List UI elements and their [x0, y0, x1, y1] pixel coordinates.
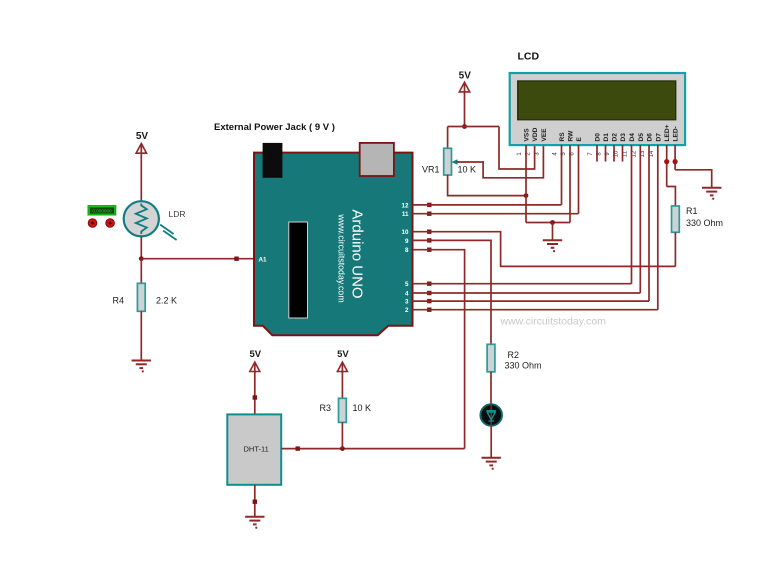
Arduino UNO board U1	[254, 153, 413, 336]
ground (LED D1)	[482, 458, 501, 470]
svg-text:LCD: LCD	[518, 51, 540, 63]
wire pin12 to LCD RS	[413, 204, 562, 206]
svg-text:2: 2	[405, 307, 409, 314]
wire branch to VR1 top	[447, 127, 449, 149]
wire LCD D4 down	[631, 145, 633, 284]
LCD module body	[510, 73, 685, 145]
wire 5V down to node	[464, 92, 466, 127]
ground (R4)	[132, 361, 151, 373]
svg-text:R1: R1	[686, 206, 698, 216]
wire DHT to ground	[254, 485, 256, 517]
LDR button up	[88, 219, 97, 228]
node junction LDR/R4/A1	[139, 256, 144, 261]
pin square DHT data	[296, 446, 300, 450]
node LED-	[673, 159, 678, 164]
power 5V P4 (R3)	[337, 349, 349, 373]
ground (DHT)	[245, 517, 264, 529]
svg-text:Arduino UNO: Arduino UNO	[349, 209, 366, 298]
ground (LED-)	[702, 188, 721, 200]
resistor R1	[672, 206, 680, 232]
wire branch to LCD VDD	[499, 127, 535, 170]
LDR light arrows	[160, 225, 176, 240]
svg-text:R2: R2	[508, 350, 520, 360]
wire LCD D7 down	[657, 145, 659, 310]
svg-text:11: 11	[623, 150, 629, 157]
node ground net	[550, 220, 555, 225]
wire pin11 to LCD E	[413, 213, 579, 215]
wire 5V to LDR	[140, 153, 142, 201]
wire VR1 bottom to VSS net	[448, 175, 526, 196]
wire LCD D6 down	[648, 145, 650, 301]
svg-text:RS: RS	[559, 132, 566, 142]
pin square D3	[427, 299, 431, 303]
wire 5V branch horizontal	[448, 126, 499, 128]
LDR button down	[106, 219, 115, 228]
svg-text:D6: D6	[647, 133, 654, 142]
wire R1 bottom	[674, 232, 676, 266]
svg-text:RW: RW	[568, 130, 575, 142]
wire LED to ground	[490, 426, 492, 458]
wire 5V to DHT	[254, 372, 256, 415]
wire DHT data	[281, 448, 464, 450]
power 5V P2 (LCD/VR1)	[459, 71, 472, 94]
wire node to R4	[140, 259, 142, 284]
power 5V P1 (LDR supply)	[136, 131, 149, 154]
svg-text:R3: R3	[320, 403, 332, 413]
pin square DHT vcc	[253, 395, 257, 399]
potentiometer VR1	[444, 148, 458, 175]
wire R2 to LED D1	[490, 372, 492, 405]
wire pin8 to DHT data	[413, 250, 465, 449]
wire LCD D5 down	[639, 145, 641, 293]
pin square D8	[427, 248, 431, 252]
node 5V branch	[462, 124, 467, 129]
svg-text:5V: 5V	[337, 349, 349, 360]
pin square D10	[427, 230, 431, 234]
pin square A1	[234, 257, 238, 261]
wire pin4 to LCD D5	[413, 292, 641, 294]
pin square D9	[427, 238, 431, 242]
LED D1	[480, 404, 502, 426]
svg-text:LED+: LED+	[664, 124, 671, 141]
resistor R2	[487, 344, 495, 372]
wire node to ground	[552, 223, 554, 241]
pin square D5	[427, 282, 431, 286]
wire LCD RS stub	[561, 145, 563, 205]
wire R4 to ground	[140, 311, 142, 360]
DHT-11 sensor body	[227, 414, 281, 484]
svg-text:330 Ohm: 330 Ohm	[686, 218, 723, 228]
power 5V P3 (DHT-11)	[249, 349, 261, 373]
svg-text:4: 4	[405, 290, 409, 297]
wire LCD D1 stub	[605, 145, 607, 162]
pin square D4	[427, 291, 431, 295]
svg-text:DHT-11: DHT-11	[244, 445, 269, 454]
ICSP header bar	[289, 222, 308, 318]
wire LCD D2 stub	[613, 145, 615, 162]
svg-text:5V: 5V	[459, 71, 472, 82]
node DHT data / R3	[340, 446, 345, 451]
power jack (black)	[263, 143, 283, 178]
svg-text:D7: D7	[655, 133, 662, 142]
LDR meter display	[88, 206, 116, 215]
wire VR1 wiper to LCD VEE	[457, 145, 544, 178]
resistor R3	[339, 398, 347, 422]
svg-text:9: 9	[405, 238, 409, 245]
wire LCD D3 stub	[622, 145, 624, 162]
wire pin2 to LCD D7	[413, 309, 658, 311]
wire LED- to ground	[675, 170, 712, 188]
svg-text:External Power Jack ( 9 V ): External Power Jack ( 9 V )	[214, 122, 335, 133]
svg-text:www.circuitstoday.com: www.circuitstoday.com	[500, 316, 607, 328]
wire LCD VSS to gnd net	[525, 145, 527, 223]
svg-text:VR1: VR1	[422, 165, 440, 175]
svg-text:11: 11	[402, 211, 409, 218]
wire LCD RW stub	[569, 145, 571, 223]
wire VSS/RW ground net	[526, 222, 570, 224]
wire pin5 to LCD D4	[413, 283, 632, 285]
svg-text:330 Ohm: 330 Ohm	[505, 361, 542, 371]
USB connector	[360, 143, 394, 176]
svg-text:E: E	[576, 137, 583, 142]
wire pin10 to R1	[413, 232, 676, 267]
pin square D11	[427, 212, 431, 216]
wire LDR to node A1	[140, 236, 142, 258]
svg-text:D5: D5	[638, 133, 645, 142]
svg-text:VEE: VEE	[541, 128, 548, 142]
svg-text:R4: R4	[113, 296, 125, 306]
svg-text:5V: 5V	[136, 131, 149, 142]
svg-text:D3: D3	[620, 133, 627, 142]
svg-text:D0: D0	[595, 133, 602, 142]
svg-text:LDR: LDR	[169, 209, 186, 219]
svg-text:D2: D2	[612, 133, 619, 142]
svg-text:2.2 K: 2.2 K	[156, 296, 177, 306]
LDR photoresistor body	[124, 201, 159, 236]
svg-text:A1: A1	[259, 257, 268, 264]
svg-text:0.000000: 0.000000	[92, 209, 112, 214]
svg-text:D1: D1	[603, 133, 610, 142]
node LED+	[664, 159, 669, 164]
pin square D12	[427, 203, 431, 207]
pin square DHT gnd	[253, 500, 257, 504]
wire pin9 to R2	[413, 240, 492, 344]
svg-text:10: 10	[401, 229, 409, 236]
wire LCD D0 stub	[596, 145, 598, 162]
svg-text:D4: D4	[629, 133, 636, 142]
pin square D2	[427, 308, 431, 312]
LCD screen	[518, 81, 676, 120]
wire LCD LED+ stub	[666, 145, 668, 187]
wire node to Arduino A1	[141, 258, 254, 260]
ground (LCD)	[543, 240, 562, 252]
resistor R4	[137, 283, 145, 311]
svg-text:3: 3	[405, 299, 409, 306]
node VSS/VR1	[524, 193, 529, 198]
svg-text:5: 5	[405, 281, 409, 288]
svg-text:10 K: 10 K	[458, 165, 477, 175]
svg-text:5V: 5V	[249, 349, 261, 360]
svg-text:LED-: LED-	[673, 126, 680, 141]
wire LED+ to R1	[667, 187, 676, 207]
wire 5V to R3	[341, 372, 343, 399]
wire R3 to data node	[341, 422, 343, 448]
svg-text:8: 8	[405, 247, 409, 254]
svg-text:VDD: VDD	[532, 127, 539, 141]
svg-text:12: 12	[401, 202, 409, 209]
svg-text:www.circuitstoday.com: www.circuitstoday.com	[337, 213, 347, 302]
wire pin3 to LCD D6	[413, 300, 650, 302]
svg-text:VSS: VSS	[524, 128, 531, 142]
svg-text:10 K: 10 K	[353, 403, 372, 413]
wire LCD E stub	[578, 145, 580, 214]
wire LCD LED- stub	[674, 145, 676, 170]
